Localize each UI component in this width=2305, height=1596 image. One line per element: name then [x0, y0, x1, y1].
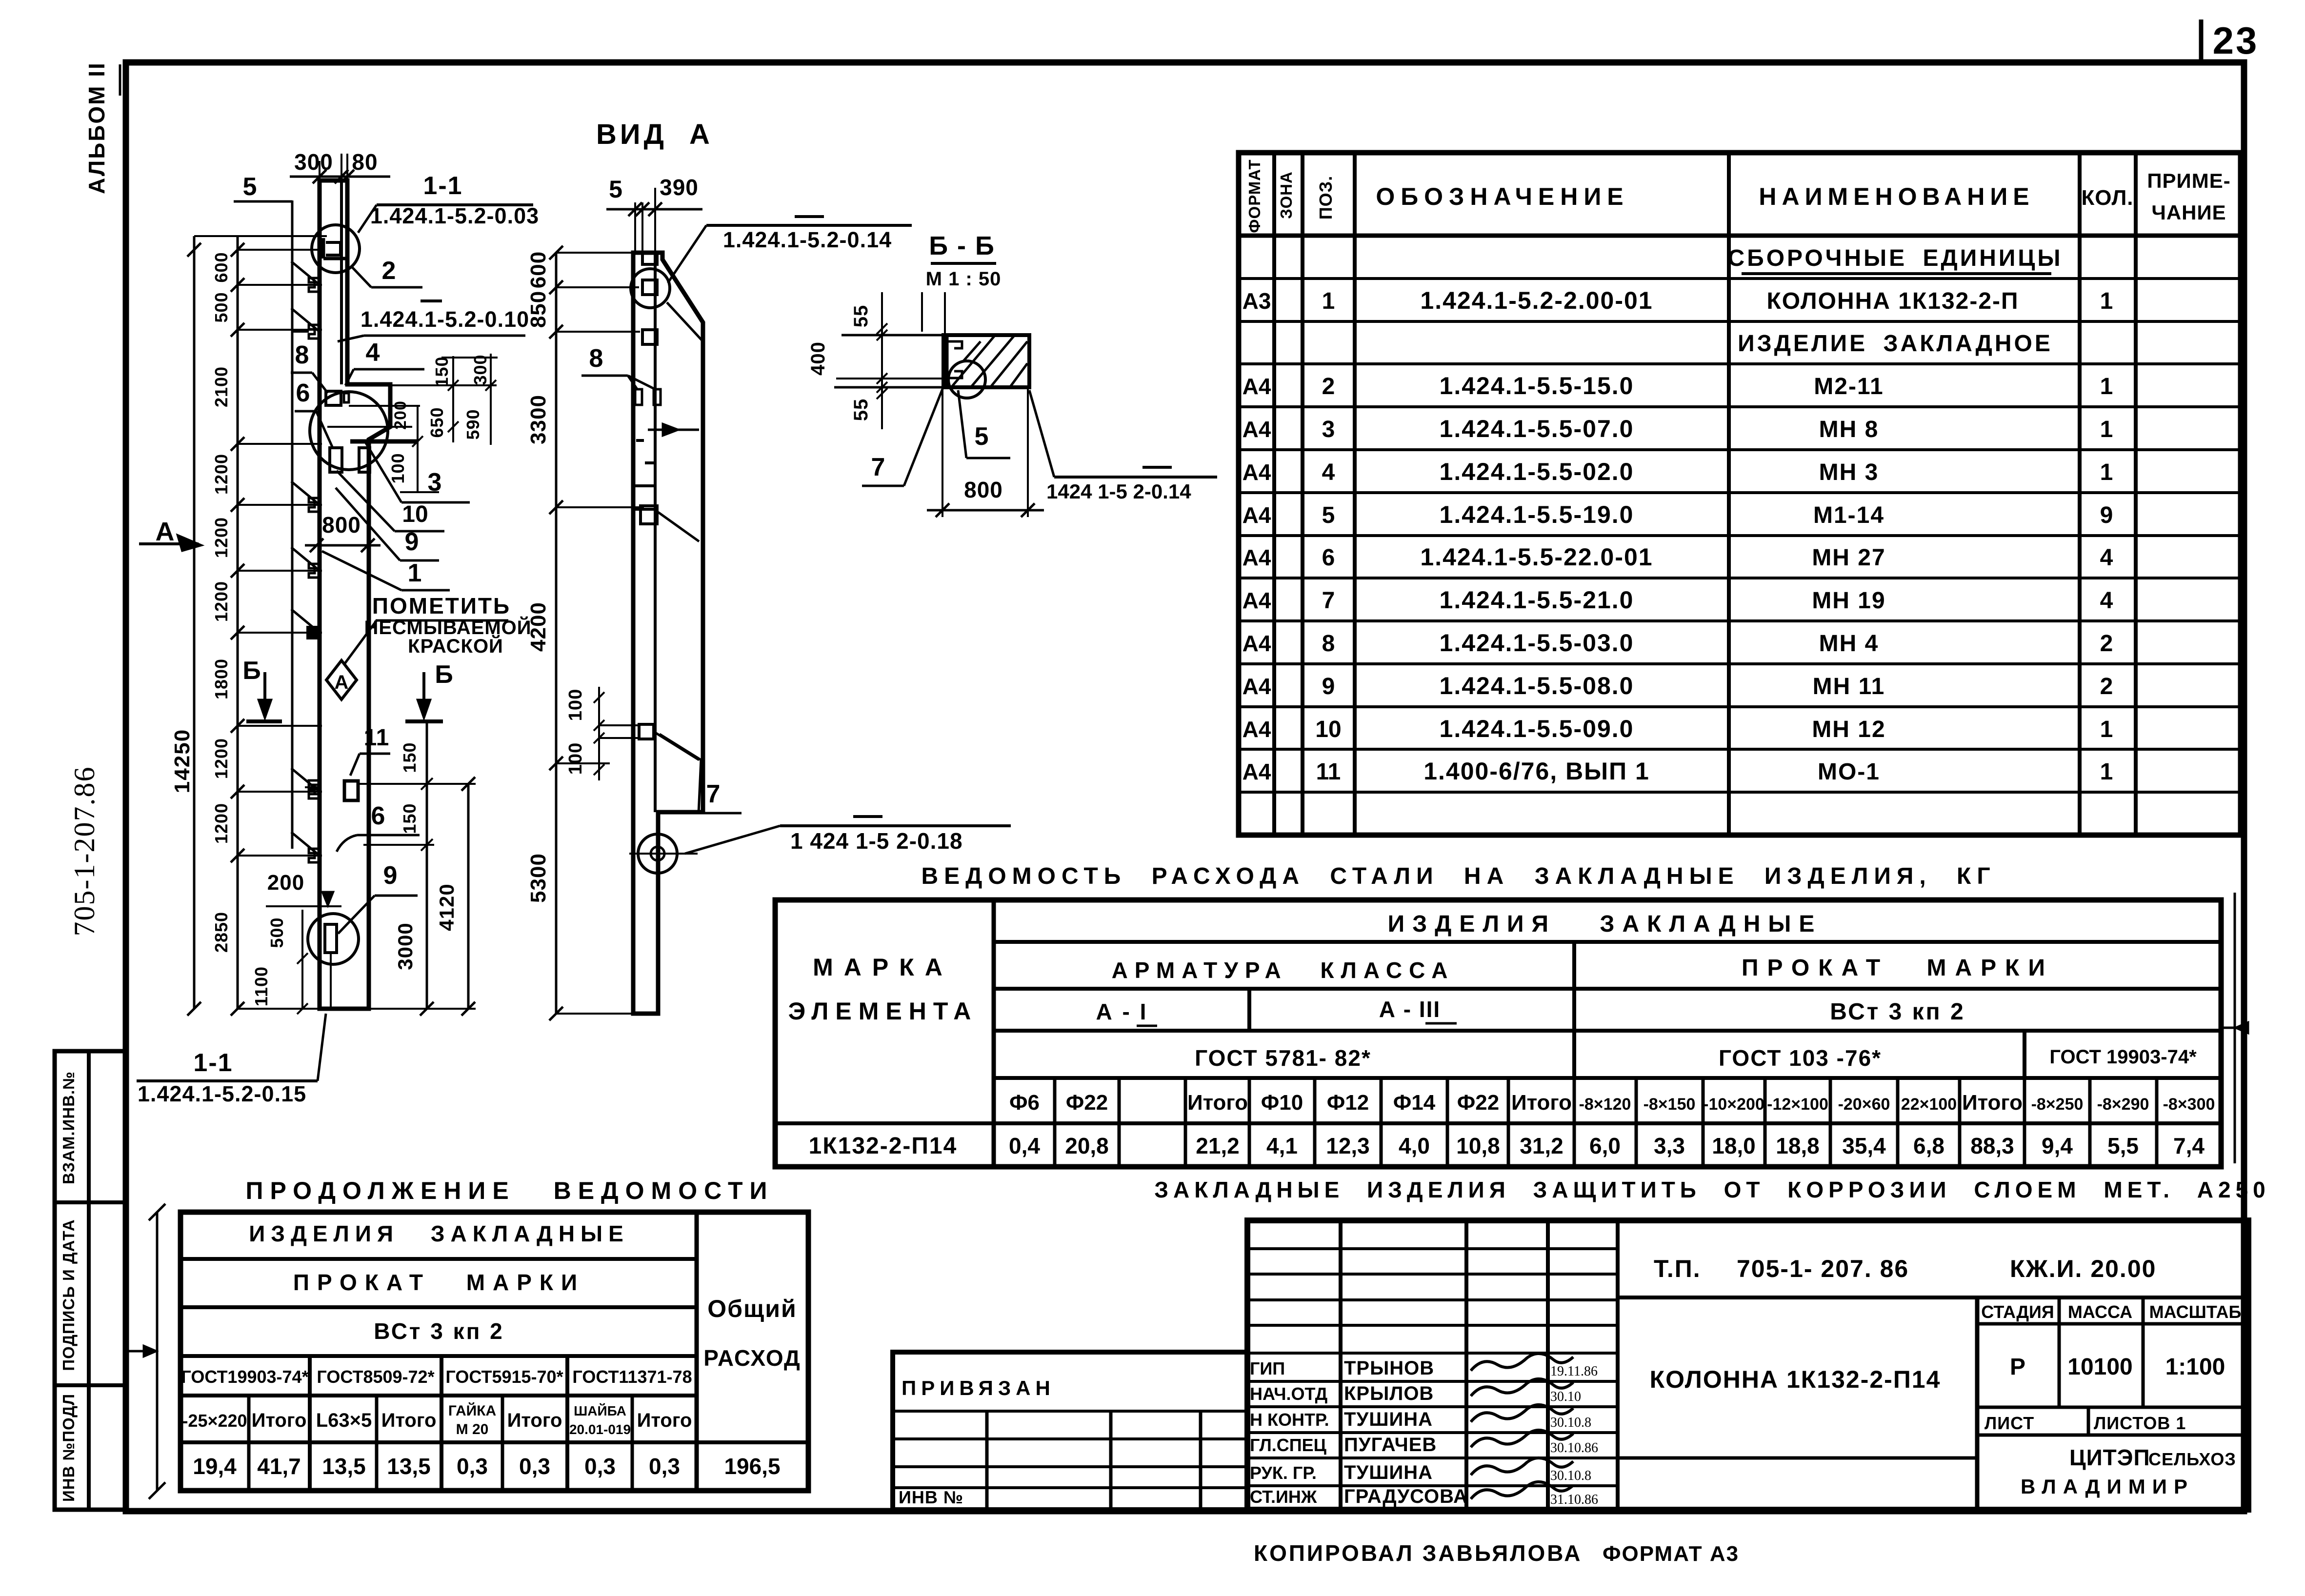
svg-text:4: 4 — [2100, 588, 2113, 614]
svg-text:300: 300 — [470, 354, 490, 385]
svg-text:А3: А3 — [1243, 288, 1271, 314]
svg-text:3300: 3300 — [526, 395, 550, 444]
svg-text:ВСт 3 кп 2: ВСт 3 кп 2 — [1830, 999, 1965, 1025]
svg-text:НАИМЕНОВАНИЕ: НАИМЕНОВАНИЕ — [1759, 183, 2034, 210]
svg-text:Итого: Итого — [381, 1410, 437, 1431]
svg-text:150: 150 — [400, 803, 420, 834]
svg-text:Ф10: Ф10 — [1261, 1091, 1303, 1115]
svg-text:ГОСТ 19903-74*: ГОСТ 19903-74* — [2049, 1046, 2197, 1068]
svg-text:ЧАНИЕ: ЧАНИЕ — [2151, 201, 2226, 224]
svg-text:ВИД А: ВИД А — [596, 119, 713, 150]
svg-text:ТРЫНОВ: ТРЫНОВ — [1344, 1357, 1434, 1379]
svg-text:-8×290: -8×290 — [2097, 1095, 2149, 1114]
svg-text:800: 800 — [322, 512, 361, 538]
detail circle top of column 1 — [312, 225, 360, 273]
svg-text:ГОСТ 103 -76*: ГОСТ 103 -76* — [1719, 1045, 1882, 1071]
svg-text:11: 11 — [1316, 759, 1341, 785]
svg-text:19,4: 19,4 — [193, 1454, 237, 1479]
svg-text:ЗАКЛАДНЫЕ ИЗДЕЛИЯ ЗАЩИТИТЬ ОТ: ЗАКЛАДНЫЕ ИЗДЕЛИЯ ЗАЩИТИТЬ ОТ КОРРОЗИИ С… — [1154, 1177, 2270, 1202]
svg-text:22×100: 22×100 — [1901, 1095, 1957, 1114]
svg-text:1.424.1-5.2-0.10: 1.424.1-5.2-0.10 — [361, 307, 529, 332]
svg-text:41,7: 41,7 — [257, 1454, 301, 1479]
svg-text:МН 11: МН 11 — [1813, 674, 1885, 699]
svg-text:6: 6 — [296, 379, 310, 407]
svg-text:5: 5 — [243, 173, 257, 201]
svg-text:Ф12: Ф12 — [1327, 1091, 1369, 1115]
svg-text:1: 1 — [1322, 288, 1335, 314]
svg-text:9: 9 — [383, 861, 398, 890]
svg-text:1.424.1-5.2-0.15: 1.424.1-5.2-0.15 — [138, 1081, 306, 1106]
svg-text:3: 3 — [428, 468, 442, 497]
svg-text:ПОЗ.: ПОЗ. — [1316, 176, 1336, 219]
B-B left dimensions 55 400 55 — [944, 292, 946, 335]
svg-text:МН 12: МН 12 — [1812, 717, 1885, 742]
svg-text:9: 9 — [2100, 502, 2113, 528]
svg-text:7: 7 — [706, 780, 721, 808]
svg-text:500: 500 — [267, 917, 287, 948]
svg-text:8: 8 — [295, 341, 309, 369]
svg-text:10: 10 — [1315, 717, 1341, 742]
svg-text:55: 55 — [850, 305, 872, 328]
left dimension bracket of continuation table — [156, 1212, 159, 1491]
label 14241-52-0.14 right of B-B — [1054, 476, 1217, 479]
svg-text:А - III: А - III — [1379, 997, 1441, 1022]
svg-text:ТУШИНА: ТУШИНА — [1344, 1462, 1433, 1483]
svg-text:3000: 3000 — [394, 922, 417, 970]
B-B section hatched block — [943, 335, 1029, 387]
column 1 top anchor plate detail — [322, 238, 325, 259]
svg-text:А4: А4 — [1243, 588, 1271, 613]
svg-text:L63×5: L63×5 — [316, 1410, 372, 1431]
svg-text:ГИП: ГИП — [1250, 1358, 1285, 1378]
svg-text:1.424.1-5.5-21.0: 1.424.1-5.5-21.0 — [1440, 586, 1634, 614]
svg-text:2850: 2850 — [211, 912, 231, 953]
svg-text:Н КОНТР.: Н КОНТР. — [1250, 1410, 1329, 1430]
extension line from column left face — [291, 200, 294, 849]
svg-text:М1-14: М1-14 — [1813, 502, 1884, 528]
svg-text:590: 590 — [463, 409, 483, 439]
svg-text:30.10.8: 30.10.8 — [1550, 1468, 1591, 1483]
svg-text:1: 1 — [2100, 717, 2113, 742]
svg-text:1:100: 1:100 — [2165, 1354, 2225, 1380]
svg-text:9: 9 — [1322, 674, 1335, 699]
bottom circled bolt on column 2 — [638, 834, 677, 873]
svg-text:СТАДИЯ: СТАДИЯ — [1981, 1302, 2054, 1322]
svg-text:18,0: 18,0 — [1712, 1133, 1756, 1158]
svg-text:8: 8 — [589, 344, 603, 373]
svg-text:-8×250: -8×250 — [2031, 1095, 2084, 1114]
svg-text:ПРИМЕ-: ПРИМЕ- — [2147, 169, 2230, 192]
svg-text:ГЛ.СПЕЦ: ГЛ.СПЕЦ — [1250, 1435, 1327, 1455]
svg-text:СЕЛЬХОЗ: СЕЛЬХОЗ — [2148, 1449, 2236, 1469]
label 1424 1-52-0.18 — [780, 824, 1011, 827]
svg-text:-12×100: -12×100 — [1767, 1095, 1828, 1114]
svg-text:Итого: Итого — [1187, 1091, 1248, 1115]
svg-text:300: 300 — [294, 149, 333, 175]
svg-text:НАЧ.ОТД: НАЧ.ОТД — [1250, 1384, 1327, 1404]
svg-text:80: 80 — [352, 149, 378, 175]
svg-text:4: 4 — [2100, 545, 2113, 571]
svg-text:1.424.1-5.5-03.0: 1.424.1-5.5-03.0 — [1440, 629, 1634, 657]
right dimension bracket of steel table — [2234, 893, 2236, 1163]
svg-text:1-1: 1-1 — [193, 1049, 233, 1077]
svg-text:ВЕДОМОСТЬ РАСХОДА СТАЛИ НА ЗАК: ВЕДОМОСТЬ РАСХОДА СТАЛИ НА ЗАКЛАДНЫЕ ИЗД… — [921, 863, 1996, 889]
plate 11 on column 1 — [344, 781, 358, 800]
svg-text:МН 4: МН 4 — [1819, 631, 1879, 657]
svg-text:9: 9 — [405, 528, 419, 556]
svg-text:18,8: 18,8 — [1776, 1133, 1820, 1158]
svg-text:А4: А4 — [1243, 374, 1271, 399]
svg-text:4,1: 4,1 — [1266, 1133, 1298, 1158]
svg-text:6: 6 — [371, 802, 385, 830]
svg-text:1.424.1-5.5-07.0: 1.424.1-5.5-07.0 — [1440, 415, 1634, 442]
svg-text:5: 5 — [609, 176, 622, 203]
svg-text:1200: 1200 — [211, 738, 231, 779]
svg-text:Итого: Итого — [1511, 1091, 1572, 1115]
svg-text:ЗОНА: ЗОНА — [1277, 171, 1295, 219]
dims 100 100 column 2 — [598, 687, 600, 780]
svg-text:ЦИТЭП: ЦИТЭП — [2069, 1445, 2150, 1470]
svg-text:1.424.1-5.5-15.0: 1.424.1-5.5-15.0 — [1440, 372, 1634, 399]
svg-text:0,3: 0,3 — [649, 1454, 680, 1479]
svg-text:100: 100 — [565, 742, 586, 775]
svg-text:8: 8 — [1322, 631, 1335, 657]
svg-text:ИЗДЕЛИЯ ЗАКЛАДНЫЕ: ИЗДЕЛИЯ ЗАКЛАДНЫЕ — [1388, 911, 1823, 937]
svg-text:Б - Б: Б - Б — [929, 231, 995, 260]
svg-text:Итого: Итого — [1962, 1091, 2023, 1115]
svg-text:4: 4 — [1322, 459, 1335, 485]
svg-text:0,3: 0,3 — [519, 1454, 550, 1479]
svg-text:0,3: 0,3 — [584, 1454, 616, 1479]
svg-text:2: 2 — [382, 257, 396, 285]
svg-text:1.424.1-5.5-09.0: 1.424.1-5.5-09.0 — [1440, 715, 1634, 742]
diagonal stitch leaders column 1 — [291, 261, 320, 285]
svg-text:А4: А4 — [1243, 459, 1271, 485]
svg-text:КРЫЛОВ: КРЫЛОВ — [1344, 1383, 1434, 1404]
svg-text:10,8: 10,8 — [1456, 1133, 1500, 1158]
svg-text:850: 850 — [526, 291, 550, 328]
svg-text:3: 3 — [1322, 417, 1335, 442]
svg-text:20,8: 20,8 — [1065, 1133, 1109, 1158]
detail circle on column 2 — [631, 269, 670, 308]
svg-text:ИЗДЕЛИЕ ЗАКЛАДНОЕ: ИЗДЕЛИЕ ЗАКЛАДНОЕ — [1738, 331, 2053, 357]
svg-text:МН 19: МН 19 — [1812, 588, 1885, 614]
bottom embedded plate detail of column 1 — [325, 924, 337, 953]
svg-text:7,4: 7,4 — [2173, 1133, 2205, 1158]
svg-text:ГРАДУСОВА: ГРАДУСОВА — [1344, 1486, 1468, 1507]
column 2 side elevation outline — [633, 253, 703, 1014]
svg-text:ПРИВЯЗАН: ПРИВЯЗАН — [902, 1377, 1055, 1399]
svg-text:А4: А4 — [1243, 717, 1271, 742]
svg-text:А4: А4 — [1243, 759, 1271, 784]
svg-text:Р: Р — [2010, 1354, 2025, 1380]
svg-text:5300: 5300 — [526, 853, 550, 903]
svg-text:1200: 1200 — [211, 517, 231, 558]
svg-text:1424 1-5 2-0.14: 1424 1-5 2-0.14 — [1046, 480, 1191, 503]
svg-text:А4: А4 — [1243, 674, 1271, 699]
svg-text:А - I: А - I — [1096, 999, 1148, 1024]
svg-text:200: 200 — [267, 871, 304, 895]
svg-text:РУК. ГР.: РУК. ГР. — [1250, 1463, 1317, 1483]
svg-text:19.11.86: 19.11.86 — [1550, 1364, 1598, 1379]
svg-text:СТ.ИНЖ: СТ.ИНЖ — [1250, 1487, 1317, 1507]
svg-text:200: 200 — [391, 400, 410, 430]
dashed hidden lines column 2 — [636, 439, 644, 442]
svg-text:Итого: Итого — [507, 1410, 562, 1431]
filled bolt mark — [307, 627, 319, 638]
svg-text:Ф6: Ф6 — [1009, 1091, 1040, 1115]
svg-text:ИЗДЕЛИЯ ЗАКЛАДНЫЕ: ИЗДЕЛИЯ ЗАКЛАДНЫЕ — [249, 1221, 629, 1246]
svg-text:ГОСТ5915-70*: ГОСТ5915-70* — [445, 1367, 563, 1387]
svg-text:КЖ.И. 20.00: КЖ.И. 20.00 — [2010, 1255, 2156, 1282]
dim 4120 — [467, 784, 470, 1009]
svg-text:7: 7 — [1322, 588, 1335, 614]
svg-text:ГОСТ 5781- 82*: ГОСТ 5781- 82* — [1195, 1045, 1371, 1071]
label 1.424.1-5.2-0.14 top — [706, 224, 912, 227]
svg-text:650: 650 — [427, 407, 447, 438]
dim 800 under B-B — [942, 390, 943, 517]
svg-text:ПОДПИСЬ И ДАТА: ПОДПИСЬ И ДАТА — [60, 1219, 78, 1371]
svg-text:ВЛАДИМИР: ВЛАДИМИР — [2021, 1475, 2194, 1498]
svg-text:МН 3: МН 3 — [1819, 459, 1879, 485]
svg-text:ГОСТ8509-72*: ГОСТ8509-72* — [317, 1367, 434, 1387]
svg-text:1200: 1200 — [211, 454, 231, 495]
svg-text:1: 1 — [2100, 374, 2113, 399]
svg-text:500: 500 — [211, 292, 231, 322]
svg-text:ЭЛЕМЕНТА: ЭЛЕМЕНТА — [788, 997, 978, 1025]
svg-text:МН 27: МН 27 — [1812, 545, 1885, 571]
svg-text:Ф22: Ф22 — [1066, 1091, 1108, 1115]
svg-text:ЛИСТ: ЛИСТ — [1984, 1413, 2034, 1433]
svg-text:1: 1 — [2100, 288, 2113, 314]
svg-text:КОЛ.: КОЛ. — [2081, 186, 2133, 210]
svg-text:ФОРМАТ А3: ФОРМАТ А3 — [1603, 1542, 1739, 1566]
svg-text:150: 150 — [400, 742, 420, 773]
svg-text:400: 400 — [807, 341, 829, 376]
svg-text:ПРОКАТ МАРКИ: ПРОКАТ МАРКИ — [1742, 955, 2054, 981]
svg-text:А4: А4 — [1243, 502, 1271, 528]
svg-text:ГАЙКА: ГАЙКА — [448, 1402, 496, 1419]
svg-text:4,0: 4,0 — [1399, 1133, 1430, 1158]
svg-text:30.10.86: 30.10.86 — [1550, 1440, 1598, 1456]
svg-text:6,8: 6,8 — [1913, 1133, 1944, 1158]
svg-text:3,3: 3,3 — [1654, 1133, 1685, 1158]
embedded plates on column 2 — [642, 253, 657, 264]
svg-text:600: 600 — [526, 251, 550, 288]
svg-text:Общий: Общий — [707, 1295, 797, 1322]
svg-text:10100: 10100 — [2067, 1354, 2132, 1380]
parts specification table — [1239, 153, 2241, 835]
svg-text:800: 800 — [964, 477, 1003, 502]
svg-text:1: 1 — [2100, 759, 2113, 785]
svg-text:ТУШИНА: ТУШИНА — [1344, 1409, 1433, 1430]
svg-text:4200: 4200 — [526, 602, 550, 652]
svg-text:13,5: 13,5 — [322, 1454, 366, 1479]
dims 150 150 at plate 11 — [357, 783, 434, 785]
overall height dimension line 14250 — [193, 236, 196, 1009]
svg-text:А4: А4 — [1243, 417, 1271, 442]
svg-text:МАСШТАБ: МАСШТАБ — [2149, 1302, 2242, 1322]
svg-text:МАРКА: МАРКА — [813, 954, 953, 981]
svg-text:1200: 1200 — [211, 803, 231, 844]
svg-text:СБОРОЧНЫЕ ЕДИНИЦЫ: СБОРОЧНЫЕ ЕДИНИЦЫ — [1728, 245, 2063, 271]
plate near 7 label — [639, 724, 654, 739]
svg-text:-20×60: -20×60 — [1838, 1095, 1890, 1114]
svg-text:0,4: 0,4 — [1009, 1133, 1040, 1158]
svg-text:4: 4 — [366, 339, 380, 367]
svg-text:1-1: 1-1 — [423, 172, 462, 200]
svg-text:1.424.1-5.2-0.03: 1.424.1-5.2-0.03 — [370, 203, 539, 228]
svg-text:ПОМЕТИТЬ: ПОМЕТИТЬ — [372, 593, 511, 618]
continuation table — [180, 1212, 808, 1491]
svg-text:1 424 1-5 2-0.18: 1 424 1-5 2-0.18 — [790, 828, 963, 854]
svg-text:1: 1 — [408, 559, 422, 587]
svg-text:ЛИСТОВ 1: ЛИСТОВ 1 — [2094, 1413, 2186, 1433]
svg-text:Т.П.: Т.П. — [1654, 1255, 1701, 1282]
svg-text:1.424.1-5.2-0.14: 1.424.1-5.2-0.14 — [723, 227, 892, 252]
svg-text:55: 55 — [850, 399, 872, 421]
svg-text:1.424.1-5.5-02.0: 1.424.1-5.5-02.0 — [1440, 458, 1634, 485]
svg-text:5: 5 — [1322, 502, 1335, 528]
svg-text:1.424.1-5.5-22.0-01: 1.424.1-5.5-22.0-01 — [1420, 543, 1653, 571]
svg-text:13,5: 13,5 — [387, 1454, 431, 1479]
svg-text:ГОСТ11371-78: ГОСТ11371-78 — [572, 1367, 692, 1387]
svg-text:ШАЙБА: ШАЙБА — [574, 1403, 626, 1418]
svg-text:М 1 : 50: М 1 : 50 — [926, 268, 1002, 290]
svg-text:Ф22: Ф22 — [1457, 1091, 1500, 1115]
svg-text:1: 1 — [2100, 459, 2113, 485]
svg-text:А4: А4 — [1243, 631, 1271, 656]
column 1K132 front elevation outline — [320, 180, 390, 1009]
svg-text:11: 11 — [364, 725, 390, 751]
svg-text:Б: Б — [242, 657, 261, 685]
arrow mark mid column 2 — [648, 429, 699, 431]
svg-text:7: 7 — [871, 453, 885, 481]
svg-text:390: 390 — [660, 175, 699, 200]
svg-text:2100: 2100 — [211, 366, 231, 407]
detail circle at console of column 1 — [310, 392, 388, 470]
svg-text:АЛЬБОМ II: АЛЬБОМ II — [84, 61, 109, 194]
svg-text:4120: 4120 — [435, 883, 458, 931]
svg-text:23: 23 — [2213, 19, 2259, 62]
svg-text:Б: Б — [435, 660, 453, 689]
left dimension chain of column 1 — [237, 236, 239, 1009]
svg-text:МН 8: МН 8 — [1819, 417, 1879, 442]
svg-text:А: А — [335, 672, 349, 693]
steel consumption table — [775, 900, 2221, 1167]
svg-text:14250: 14250 — [170, 729, 194, 793]
svg-text:ПРОКАТ МАРКИ: ПРОКАТ МАРКИ — [293, 1270, 585, 1295]
svg-text:МО-1: МО-1 — [1818, 759, 1880, 785]
column 2 inner line — [654, 253, 657, 812]
svg-text:9,4: 9,4 — [2042, 1133, 2073, 1158]
svg-text:0,3: 0,3 — [457, 1454, 488, 1479]
svg-text:ПУГАЧЕВ: ПУГАЧЕВ — [1344, 1434, 1437, 1456]
svg-text:5: 5 — [975, 422, 989, 451]
svg-text:КОЛОННА 1К132-2-П14: КОЛОННА 1К132-2-П14 — [1650, 1366, 1941, 1393]
embedded plates at console — [326, 391, 341, 405]
svg-text:2: 2 — [1322, 374, 1335, 399]
bottom small table (Privyazan) — [893, 1352, 1247, 1510]
svg-text:М2-11: М2-11 — [1814, 374, 1884, 399]
svg-text:1: 1 — [2100, 417, 2113, 442]
svg-text:12,3: 12,3 — [1326, 1133, 1370, 1158]
svg-text:ИНВ №: ИНВ № — [899, 1487, 963, 1507]
svg-text:100: 100 — [388, 453, 408, 483]
svg-text:-8×300: -8×300 — [2163, 1095, 2215, 1114]
title block — [1247, 1220, 2248, 1510]
column 2 dimension chain — [555, 253, 558, 1014]
svg-text:-8×150: -8×150 — [1644, 1095, 1696, 1114]
svg-text:35,4: 35,4 — [1842, 1133, 1886, 1158]
svg-text:Итого: Итого — [252, 1410, 307, 1431]
svg-text:АРМАТУРА КЛАССА: АРМАТУРА КЛАССА — [1112, 958, 1455, 983]
svg-text:1.424.1-5.5-19.0: 1.424.1-5.5-19.0 — [1440, 501, 1634, 528]
svg-text:1К132-2-П14: 1К132-2-П14 — [809, 1133, 958, 1159]
svg-text:1200: 1200 — [211, 581, 231, 622]
svg-text:21,2: 21,2 — [1196, 1133, 1240, 1158]
svg-text:31,2: 31,2 — [1520, 1133, 1563, 1158]
svg-text:6: 6 — [1322, 545, 1335, 571]
svg-text:1800: 1800 — [211, 658, 231, 699]
svg-text:705-1- 207. 86: 705-1- 207. 86 — [1737, 1255, 1909, 1282]
svg-text:30.10: 30.10 — [1550, 1389, 1581, 1404]
svg-text:5,5: 5,5 — [2107, 1133, 2139, 1158]
svg-text:196,5: 196,5 — [724, 1454, 780, 1479]
svg-text:1.424.1-5.5-08.0: 1.424.1-5.5-08.0 — [1440, 672, 1634, 699]
svg-text:150: 150 — [432, 356, 452, 387]
svg-text:-10×200: -10×200 — [1703, 1095, 1764, 1114]
svg-text:1.400-6/76, ВЫП 1: 1.400-6/76, ВЫП 1 — [1423, 758, 1650, 785]
column 1 inner flange line — [340, 180, 343, 384]
svg-text:-25×220: -25×220 — [182, 1411, 247, 1431]
svg-text:20.01-019: 20.01-019 — [569, 1422, 631, 1437]
svg-text:М 20: М 20 — [456, 1421, 489, 1437]
embedded plate in B-B — [944, 335, 949, 387]
console slab line — [350, 439, 419, 444]
embedded bolts on column 1 left face — [309, 278, 320, 292]
svg-text:КОПИРОВАЛ ЗАВЬЯЛОВА: КОПИРОВАЛ ЗАВЬЯЛОВА — [1254, 1540, 1582, 1566]
svg-text:30.10.8: 30.10.8 — [1550, 1415, 1591, 1430]
svg-text:705-1-207.86: 705-1-207.86 — [68, 766, 100, 937]
svg-text:КОЛОННА 1К132-2-П: КОЛОННА 1К132-2-П — [1766, 288, 2019, 314]
svg-text:1.424.1-5.2-2.00-01: 1.424.1-5.2-2.00-01 — [1420, 287, 1653, 314]
svg-text:100: 100 — [565, 689, 586, 721]
mid dash mark — [421, 299, 442, 302]
svg-text:6,0: 6,0 — [1589, 1133, 1621, 1158]
svg-text:600: 600 — [211, 252, 231, 282]
svg-text:КРАСКОЙ: КРАСКОЙ — [408, 635, 503, 657]
svg-text:2: 2 — [2100, 631, 2113, 657]
svg-text:88,3: 88,3 — [1970, 1133, 2014, 1158]
svg-text:31.10.86: 31.10.86 — [1550, 1492, 1598, 1507]
svg-text:ВСт 3 кп 2: ВСт 3 кп 2 — [374, 1318, 504, 1344]
svg-text:ГОСТ19903-74*: ГОСТ19903-74* — [181, 1367, 308, 1387]
svg-text:МАССА: МАССА — [2068, 1302, 2132, 1322]
svg-text:Итого: Итого — [637, 1410, 692, 1431]
console sub-dimension cluster — [347, 384, 497, 386]
svg-text:ПРОДОЛЖЕНИЕ ВЕДОМОСТИ: ПРОДОЛЖЕНИЕ ВЕДОМОСТИ — [246, 1177, 774, 1204]
svg-text:ВЗАМ.ИНВ.№: ВЗАМ.ИНВ.№ — [60, 1071, 78, 1184]
svg-text:10: 10 — [402, 501, 428, 527]
svg-text:2: 2 — [2100, 674, 2113, 699]
svg-text:1100: 1100 — [251, 966, 271, 1006]
left margin stamp boxes — [55, 1051, 126, 1510]
label 1.424.1-5.2-0.10 — [364, 335, 525, 337]
svg-text:А: А — [156, 517, 175, 546]
svg-text:РАСХОД: РАСХОД — [703, 1345, 801, 1371]
svg-text:А4: А4 — [1243, 545, 1271, 570]
